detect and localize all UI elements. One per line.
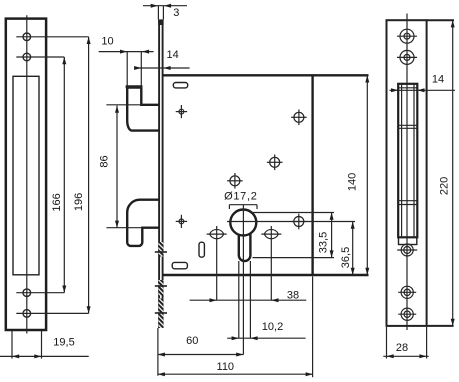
svg-text:140: 140 <box>347 173 359 191</box>
svg-text:166: 166 <box>51 193 63 211</box>
svg-text:19,5: 19,5 <box>53 337 74 349</box>
svg-text:10,2: 10,2 <box>262 321 283 333</box>
svg-text:3: 3 <box>173 7 179 19</box>
svg-text:110: 110 <box>217 361 235 373</box>
svg-text:33,5: 33,5 <box>317 232 329 253</box>
svg-text:10: 10 <box>101 36 113 48</box>
svg-text:60: 60 <box>186 335 198 347</box>
svg-text:86: 86 <box>99 155 111 167</box>
svg-text:38: 38 <box>287 290 299 302</box>
svg-text:28: 28 <box>396 342 408 354</box>
svg-text:14: 14 <box>166 49 178 61</box>
svg-text:Ø17,2: Ø17,2 <box>224 191 257 203</box>
svg-text:196: 196 <box>73 193 85 211</box>
svg-text:36,5: 36,5 <box>340 247 352 268</box>
svg-text:220: 220 <box>439 177 451 195</box>
svg-text:14: 14 <box>432 73 444 85</box>
